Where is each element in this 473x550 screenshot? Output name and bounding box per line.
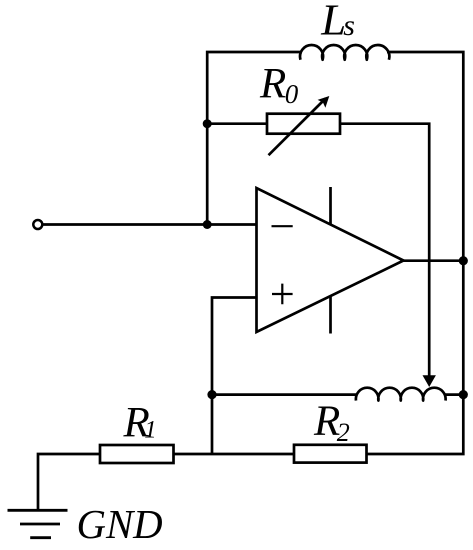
wire bottom feedback horizontal right xyxy=(444,393,463,396)
svg-text:R: R xyxy=(259,61,286,108)
input terminal xyxy=(33,220,42,229)
inductor Ls xyxy=(300,45,389,60)
wire plus-input horizontal + vertical xyxy=(212,298,257,455)
resistor R0 xyxy=(267,114,340,134)
resistor R2 xyxy=(294,445,367,463)
node dot input/R0 xyxy=(203,119,212,128)
wire top horizontal left + left vertical (input net) xyxy=(207,52,302,225)
arrowhead down to L2 xyxy=(423,375,436,387)
node dot plus net bottom xyxy=(207,390,216,399)
wire output horizontal xyxy=(404,259,464,262)
svg-text:s: s xyxy=(343,9,355,42)
svg-text:2: 2 xyxy=(337,418,350,447)
ground symbol xyxy=(8,510,68,537)
svg-text:0: 0 xyxy=(285,79,299,109)
arrowhead of R0 arrow xyxy=(318,96,330,108)
svg-text:GND: GND xyxy=(77,502,163,547)
inductor L2 (bottom) xyxy=(356,388,446,401)
op-amp U1 xyxy=(257,188,404,332)
arrow line through R0 (variable) xyxy=(269,99,326,156)
node dot input wire xyxy=(203,220,212,229)
op-amp power pin bottom xyxy=(329,296,332,334)
svg-text:1: 1 xyxy=(144,416,157,443)
op-amp plus sign xyxy=(272,284,293,305)
node dot output xyxy=(459,256,468,265)
node dot bottom right xyxy=(459,390,468,399)
wire bottom feedback horizontal left xyxy=(212,393,358,396)
wire input horizontal xyxy=(43,223,257,226)
op-amp power pin top xyxy=(329,187,332,225)
resistor R1 xyxy=(100,445,174,463)
wire top horizontal right + right vertical + bottom row + ground lead xyxy=(38,52,463,510)
wire R0 row horizontal xyxy=(207,124,429,376)
op-amp minus sign xyxy=(272,225,293,227)
